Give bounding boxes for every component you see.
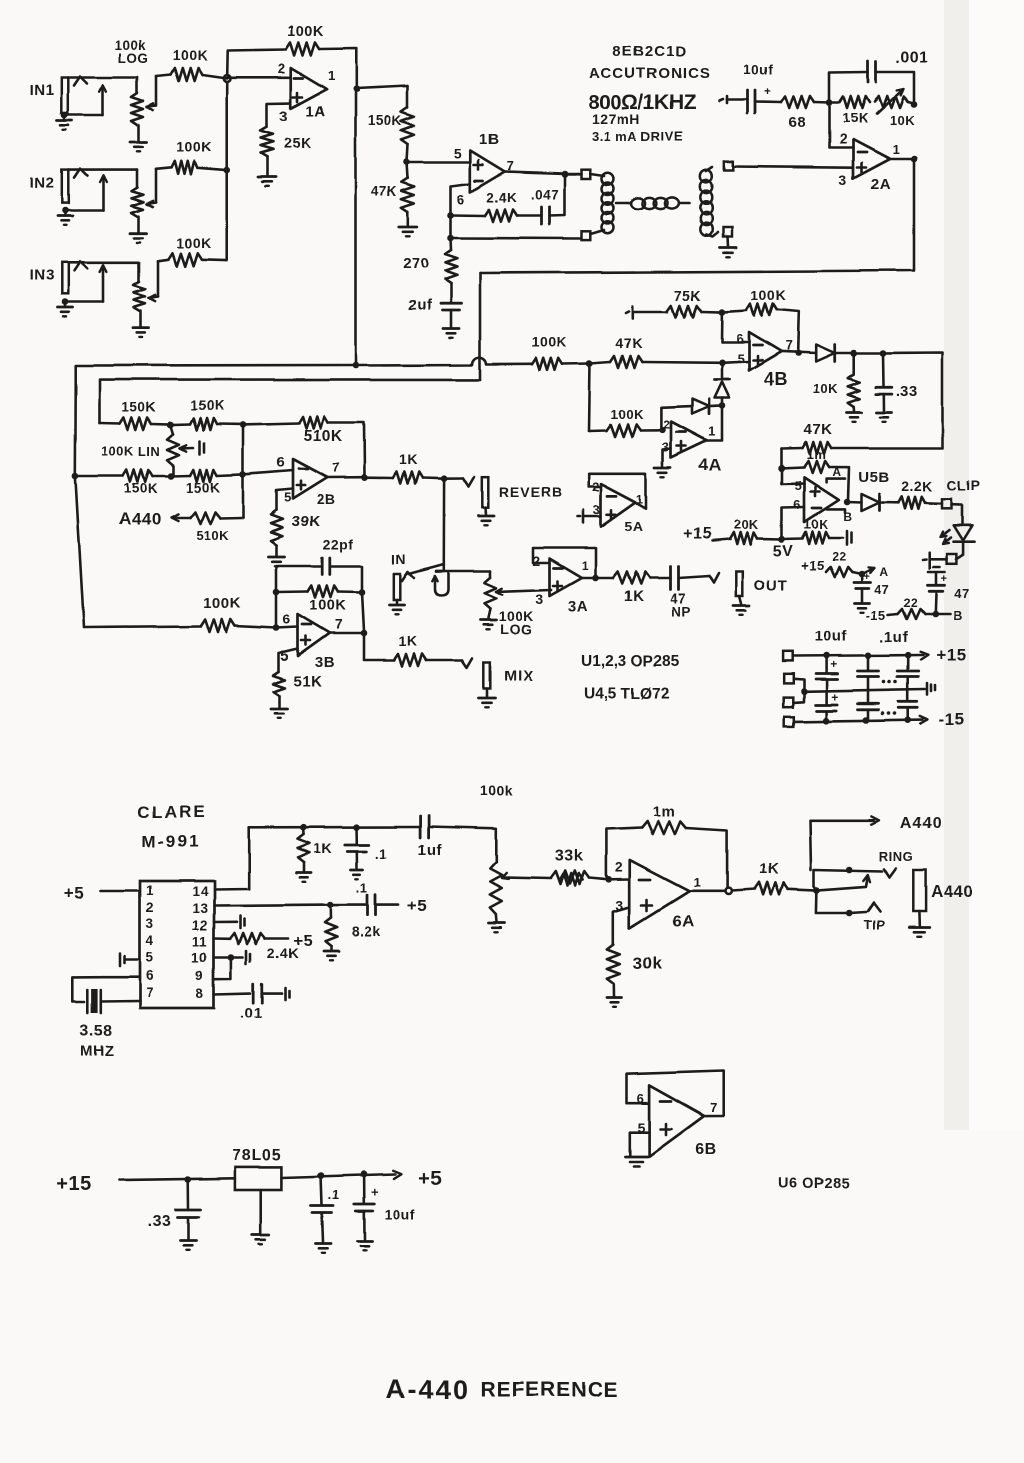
label 100K (3B fb): [310, 598, 347, 614]
svg-text:U4,5 TLØ72: U4,5 TLØ72: [584, 686, 669, 703]
label 20K: [733, 517, 758, 532]
resistor 10K (ref): [782, 532, 844, 544]
label 4A: [699, 456, 722, 475]
label 3B: [315, 654, 335, 671]
wire 78L05 gnd: [259, 1190, 262, 1234]
ground (IN3 pot): [133, 328, 149, 337]
pin 1 label (2A): [892, 142, 900, 157]
svg-text:4: 4: [146, 933, 154, 948]
svg-text:TIP: TIP: [864, 917, 886, 932]
svg-text:+: +: [830, 657, 838, 671]
wire fb node down: [449, 215, 452, 238]
wire pin10 to pin9: [214, 958, 231, 980]
wire -15 rail: [794, 716, 928, 724]
svg-text:10K: 10K: [813, 381, 838, 396]
wire pin13: [214, 903, 331, 907]
stub (2A input): [720, 96, 728, 103]
svg-text:B: B: [953, 608, 963, 623]
svg-text:LOG: LOG: [500, 621, 532, 637]
svg-text:100K: 100K: [203, 595, 241, 612]
wire tank return: [451, 237, 582, 240]
pin 7 label (2B): [332, 460, 340, 475]
stub (75K input): [626, 306, 633, 318]
resistor 2.2K: [898, 497, 925, 509]
wire 3A pin3 from wiper: [550, 589, 552, 592]
node 4A inverting: [659, 427, 666, 434]
resistor 15K: [829, 97, 869, 109]
capacitor .1 b (+rail): [898, 655, 919, 689]
ground (10uf 78L05): [357, 1211, 372, 1250]
pin 13 label (M-991): [192, 901, 208, 916]
capacitor 10uf (78L05): [354, 1174, 415, 1222]
label MHZ: [80, 1043, 114, 1060]
label 100K (3B dry): [203, 595, 241, 612]
wire pin11: [214, 937, 230, 940]
svg-text:RING: RING: [879, 849, 914, 864]
resistor 1m (6A fb): [606, 821, 727, 888]
svg-text:5: 5: [794, 478, 802, 493]
pin 6 label (1B): [457, 191, 465, 207]
ground (IN3 jack): [58, 302, 73, 317]
label 33k: [555, 848, 583, 865]
capacitor .1 (M-991): [345, 827, 369, 851]
wire U5B pin6 down: [782, 507, 805, 539]
wire 1K to node: [788, 889, 817, 890]
label 1m (6A): [653, 803, 676, 820]
ground (47 A): [855, 589, 870, 613]
wire to node 2: [854, 352, 883, 355]
svg-text:5V: 5V: [773, 543, 794, 560]
svg-text:M-991: M-991: [142, 832, 200, 851]
ground (IN1 jack): [58, 115, 73, 130]
svg-text:75K: 75K: [674, 287, 701, 303]
pin 7 label (M-991): [146, 985, 154, 1000]
svg-text:150K: 150K: [190, 398, 224, 413]
wire 51K to ground: [278, 696, 281, 708]
ground (MIX jack): [479, 689, 496, 708]
wire to REVERB jack: [444, 477, 474, 487]
wire node up: [275, 592, 278, 628]
pin 12 label (M-991): [192, 918, 208, 933]
IN3 jack sleeve node: [62, 299, 69, 306]
svg-text:2.4K: 2.4K: [267, 945, 299, 961]
wire pin8: [214, 992, 250, 996]
IN2 jack sleeve node: [62, 207, 69, 214]
capacitor .33 (rect): [876, 353, 892, 394]
resistor 2.4K (pin11): [230, 933, 265, 944]
wire 47NP to OUT: [679, 574, 719, 584]
ground (IN1 pot): [131, 142, 147, 151]
stub (LED ret): [923, 553, 947, 569]
svg-text:6: 6: [793, 497, 801, 512]
wire pin12: [214, 920, 237, 923]
ground (A440 pot): [489, 914, 505, 932]
svg-text:100K: 100K: [288, 24, 325, 40]
wire diode to node: [835, 352, 854, 355]
svg-text:+15: +15: [936, 646, 966, 665]
svg-text:+: +: [864, 571, 871, 583]
label A440 (arrow): [900, 815, 942, 832]
svg-text:+: +: [831, 690, 839, 704]
resistor 100K (3B dry in): [84, 620, 277, 633]
wire dry bus (1A out down): [354, 89, 357, 365]
wire reverb bus to 2B: [100, 379, 481, 423]
label MIX: [504, 668, 534, 685]
node 2A output: [911, 156, 918, 163]
resistor 1K (6A out): [755, 883, 788, 895]
svg-text:A-440: A-440: [386, 1374, 470, 1404]
capacitor 2uf: [408, 297, 462, 314]
ground (.1 M-991): [351, 851, 363, 879]
resistor 1m (U5B fb): [782, 461, 850, 500]
label B: [953, 608, 963, 623]
resistor 1K (mix send): [394, 654, 426, 666]
svg-text:-15: -15: [866, 608, 886, 623]
svg-text:3: 3: [839, 172, 847, 188]
svg-text:5A: 5A: [625, 518, 644, 534]
capacitor .1 b (-rail): [899, 689, 918, 720]
op-amp 4A: [671, 422, 707, 458]
ground (IN2 pot): [131, 234, 147, 243]
svg-text:1K: 1K: [399, 451, 418, 467]
label M-991: [142, 832, 200, 851]
svg-text:A440: A440: [900, 815, 942, 832]
stub (pin5): [120, 953, 140, 966]
summing node: [223, 75, 230, 82]
ground (IN2 jack): [58, 210, 73, 225]
pin 6 label (2B): [277, 454, 285, 470]
svg-text:3: 3: [146, 916, 154, 931]
svg-text:U5B: U5B: [858, 469, 890, 486]
wire pin6 left: [103, 976, 140, 979]
capacitor 47 (A): [854, 571, 890, 597]
ground (3A pot): [480, 609, 496, 629]
wire diode2 right: [709, 405, 722, 408]
pin 3 label (4A): [662, 440, 670, 455]
svg-text:100K: 100K: [176, 235, 211, 251]
svg-text:LOG: LOG: [118, 51, 149, 66]
label +5 (pin11): [293, 933, 312, 950]
label 6A: [672, 914, 693, 931]
svg-text:IN: IN: [392, 551, 407, 567]
resistor 100K (rect in): [532, 358, 590, 370]
node .1 tap: [353, 824, 360, 831]
svg-text:8EB2C1D: 8EB2C1D: [613, 43, 688, 60]
wire hook to pot: [432, 565, 448, 596]
wire 6A pin3: [613, 907, 629, 945]
diode (4A fb vertical): [715, 363, 730, 406]
label U4,5 TL072: [584, 686, 669, 703]
svg-text:7: 7: [146, 985, 154, 1000]
node 1B output: [561, 171, 568, 178]
pin 9 label (M-991): [196, 968, 204, 983]
svg-text:1: 1: [693, 875, 701, 890]
svg-text:10: 10: [192, 950, 208, 965]
svg-text:NP: NP: [671, 604, 691, 619]
pin 10 label (M-991): [192, 950, 208, 965]
label 1K (6A out): [759, 861, 779, 878]
svg-text:CLARE: CLARE: [138, 803, 207, 822]
ellipsis (rails bottom): [881, 711, 897, 715]
node 2B inverting: [240, 471, 247, 478]
resistor 510K (2B feedback): [243, 417, 365, 476]
ground (47K): [399, 227, 417, 236]
svg-text:5: 5: [454, 145, 462, 161]
connector square (gnd in a): [784, 674, 794, 684]
svg-text:78L05: 78L05: [232, 1147, 282, 1164]
label 51K: [293, 673, 322, 690]
label CLIP: [947, 477, 981, 493]
wire B right: [935, 613, 950, 616]
node 2B inverting top: [240, 421, 247, 428]
svg-text:47: 47: [874, 582, 889, 597]
node U5B output: [844, 499, 851, 506]
svg-text:U6 OP285: U6 OP285: [778, 1176, 850, 1192]
wire +5 out: [282, 1170, 402, 1178]
label 2.4K: [267, 945, 299, 961]
svg-text:100K: 100K: [531, 334, 566, 350]
label U1,2,3 OP285: [581, 653, 680, 670]
wire TIP branch: [816, 890, 847, 913]
resistor 100K (IN3 summing): [158, 253, 227, 266]
label .1 (M-991): [375, 846, 387, 861]
wire RING branch: [814, 870, 883, 891]
IN1 pot wiper arrow: [147, 76, 156, 110]
pin 5 label (2B): [284, 490, 292, 505]
pin 5 label (U5B): [794, 478, 802, 493]
label 150K (a): [122, 400, 156, 415]
resistor 75K: [667, 305, 702, 317]
svg-text:5: 5: [284, 490, 292, 505]
label 1B: [479, 131, 499, 148]
svg-text:1K: 1K: [624, 588, 644, 605]
node TIP: [846, 910, 853, 917]
label 510K (A440): [195, 528, 228, 543]
label 2.2K: [901, 478, 933, 494]
potentiometer 100K (IN3 level): [134, 263, 146, 327]
node dry to 2B: [72, 473, 79, 480]
svg-text:.001: .001: [895, 49, 928, 66]
wire 2B top-bottom join: [242, 424, 245, 474]
pin 6 label (M-991): [146, 968, 154, 983]
svg-text:1K: 1K: [759, 861, 779, 878]
wire 3B out down: [364, 633, 394, 660]
wire 4B pin6 net: [722, 312, 749, 342]
A440 output jack: [913, 870, 925, 911]
capacitor .33 (78L05): [176, 1180, 201, 1218]
resistor 33K (6A in): [560, 874, 583, 886]
label 47K (4B): [615, 335, 642, 351]
op-amp 1B: [470, 151, 504, 193]
IN3 input jack: [30, 263, 69, 294]
svg-text:2: 2: [592, 479, 600, 494]
svg-text:10uf: 10uf: [815, 628, 848, 645]
node B stub: [925, 611, 939, 618]
svg-text:2uf: 2uf: [408, 297, 433, 314]
resistor 22 (B): [888, 596, 925, 619]
wire reverb send down: [442, 478, 445, 565]
wire .01 to stub: [262, 992, 282, 995]
svg-text:10uf: 10uf: [743, 62, 773, 77]
label 4B: [764, 369, 788, 389]
capacitor .047: [542, 207, 550, 225]
resistor 100K (IN1 summing): [156, 68, 227, 81]
pin 6 label (4B): [736, 331, 744, 346]
wire IN1 sleeve to switch: [65, 85, 106, 115]
stub (ref bypass): [847, 531, 852, 545]
op-amp U5B: [804, 477, 839, 522]
pin 5 label (4B): [737, 351, 745, 366]
svg-text:12: 12: [192, 918, 208, 933]
svg-text:3.1 mA DRIVE: 3.1 mA DRIVE: [592, 129, 684, 144]
resistor 150K (dry in b): [171, 470, 243, 482]
svg-text:6A: 6A: [672, 914, 693, 931]
wire rect out right: [831, 353, 943, 449]
op-amp 2A: [853, 140, 890, 179]
wire IN3 tip to pot: [69, 261, 140, 264]
node diode junction: [719, 403, 726, 410]
op-amp 3B: [298, 614, 330, 656]
label +5 (M-991): [64, 884, 84, 903]
wire diode to 2.2K: [880, 501, 899, 504]
svg-text:3B: 3B: [315, 654, 335, 671]
capacitor 22pf: [322, 558, 330, 575]
node divider: [403, 159, 410, 166]
IN1 tip contact: [74, 77, 87, 86]
wire 150K to node: [407, 144, 408, 162]
resistor 150K (reverb in a): [100, 418, 152, 430]
svg-text:100k: 100k: [480, 783, 513, 799]
resistor 100K (4B fb): [722, 304, 777, 316]
wire gnd a: [793, 679, 804, 692]
pin 3 label (3A): [536, 591, 544, 607]
svg-text:IN2: IN2: [30, 174, 55, 191]
capacitor 10uf (2A in): [748, 84, 772, 113]
wire 3A feedback box: [534, 548, 596, 576]
label 2A: [871, 176, 891, 193]
node 8.2K tap: [327, 901, 334, 908]
ground (OUT jack): [733, 597, 749, 616]
svg-text:3: 3: [536, 591, 544, 607]
label 5V: [773, 543, 794, 560]
wire dry bus left vertical: [75, 390, 84, 628]
wire 270 to 2uf: [450, 283, 453, 301]
label 6B: [696, 1141, 717, 1158]
wire pin13 to cap: [331, 903, 366, 906]
svg-text:7: 7: [332, 460, 340, 475]
label 10uf (2A input cap): [743, 62, 773, 77]
OUT jack: [736, 572, 743, 597]
pin 1 label (4A): [708, 424, 716, 439]
wire summing to pin 2: [227, 76, 291, 79]
wire 1B out: [505, 172, 565, 174]
node .1 tap (78L05): [318, 1172, 325, 1179]
connector square (tank in lo): [582, 231, 591, 240]
pin 3 label (1A): [280, 108, 289, 125]
label 1A: [306, 103, 326, 120]
IN tip contact: [402, 565, 444, 582]
node IN2 join: [223, 166, 230, 173]
resistor 47K (divider): [401, 162, 414, 212]
svg-text:10K: 10K: [889, 113, 914, 128]
IN2 pot wiper arrow: [147, 169, 156, 207]
label 8EB2C1D: [613, 43, 688, 60]
stub (pin12): [241, 916, 245, 929]
label TIP: [864, 917, 886, 932]
resistor 30K: [607, 945, 620, 984]
svg-text:-15: -15: [939, 710, 965, 729]
svg-text:68: 68: [788, 115, 805, 131]
connector square (gnd in b): [784, 698, 794, 708]
capacitor 47 (B): [928, 573, 970, 614]
op-amp 5A: [601, 484, 636, 527]
capacitor .01 (pin8): [253, 984, 262, 1003]
label 5A: [625, 518, 644, 534]
pin 7 label (4B): [785, 338, 793, 353]
wire cap to output: [550, 176, 565, 216]
wire 4A pin3 gnd: [663, 449, 671, 467]
stub (5A pin3): [578, 510, 601, 523]
resistor 150K (reverb in b): [171, 418, 243, 430]
svg-text:150K: 150K: [124, 481, 158, 496]
node rail1 c1: [823, 652, 830, 659]
label .047: [531, 187, 559, 202]
svg-text:6: 6: [637, 1091, 645, 1106]
IN2 input jack: [30, 170, 69, 203]
stub (pin10): [235, 951, 251, 964]
wire top rail: [249, 826, 420, 829]
capacitor .1 a (-rail): [858, 690, 879, 721]
svg-text:MIX: MIX: [504, 668, 534, 685]
wire .001 left: [829, 72, 868, 103]
node 75K/100K: [702, 308, 726, 315]
wire 6B feedback box: [627, 1071, 724, 1116]
svg-text:.1uf: .1uf: [880, 629, 909, 646]
svg-text:25K: 25K: [284, 136, 312, 152]
A440 pot wiper: [502, 873, 552, 879]
svg-text:3: 3: [280, 108, 289, 125]
svg-text:+5: +5: [64, 884, 84, 903]
resistor 510K (A440 in): [190, 512, 243, 524]
pin 6 label (3B): [283, 611, 291, 627]
pin 2 label (M-991): [146, 900, 154, 915]
resistor 47K (to 4B pin5): [590, 356, 722, 368]
capacitor .1 (pin13): [368, 895, 376, 915]
A440 input arrow: [171, 514, 190, 521]
wire 2A out: [890, 158, 914, 161]
resistor 270: [445, 238, 457, 283]
svg-text:6: 6: [283, 611, 291, 627]
resistor 25K: [261, 127, 274, 157]
pin 5 label (3B): [281, 648, 290, 665]
IN3 pot wiper arrow: [149, 261, 158, 301]
rheostat 10K: [874, 89, 914, 115]
wire cap to 68: [755, 100, 781, 103]
label 100k LOG (input pots): [114, 38, 148, 66]
svg-text:150K: 150K: [186, 480, 220, 495]
stub (gnd rail end): [928, 683, 936, 695]
ground (8.2K): [324, 946, 339, 960]
svg-text:1: 1: [636, 492, 643, 506]
label OUT: [754, 577, 789, 594]
node 6A fb join: [725, 888, 731, 894]
wire +15 to 20K: [712, 540, 730, 542]
pin 7 label (6B): [710, 1100, 718, 1115]
wire 1K to node: [423, 476, 445, 479]
100K LOG wiper: [496, 589, 552, 595]
REVERB jack: [482, 477, 489, 508]
svg-text:2A: 2A: [871, 176, 891, 193]
